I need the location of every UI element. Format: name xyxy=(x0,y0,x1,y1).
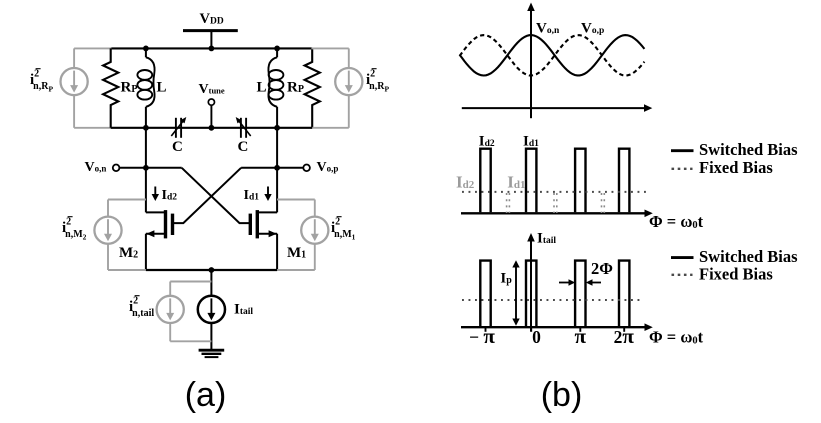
svg-text:− π: − π xyxy=(469,324,495,348)
plot3 x-axis xyxy=(461,326,646,328)
svg-text:Fixed Bias: Fixed Bias xyxy=(699,265,773,284)
wire source rail xyxy=(146,269,277,271)
resistor RP right xyxy=(305,48,320,127)
svg-text:L: L xyxy=(257,80,267,96)
svg-text:(a): (a) xyxy=(185,376,227,414)
resistor RP left xyxy=(103,48,118,127)
node top-left junction xyxy=(143,46,149,52)
legend plot3 xyxy=(671,247,798,284)
plot3 y-axis xyxy=(530,239,532,332)
pulse Id2 plot2 #1 xyxy=(480,149,490,213)
noise source i2n,Rp right (gray) xyxy=(311,48,362,127)
fixed-bias dotted level plot3 xyxy=(462,299,641,301)
arrow 2Phi left xyxy=(559,282,570,284)
capacitor C varactor left xyxy=(175,118,177,138)
pulse Itail plot3 #1 xyxy=(480,261,490,327)
waveform Vo,p dashed sine xyxy=(460,35,645,75)
node Vo,p junction xyxy=(274,165,280,171)
node rail-center junction xyxy=(209,125,215,131)
wire cross-couple gate M2 xyxy=(172,168,241,223)
wire cross-couple gate M1 xyxy=(182,168,251,223)
node rail-left junction xyxy=(143,125,149,131)
ground xyxy=(199,349,225,352)
wire drain M2 vertical xyxy=(145,128,147,213)
node top-center junction xyxy=(209,46,215,52)
pulse Id plot2 #3 xyxy=(575,149,585,213)
node rail-right junction xyxy=(274,125,280,131)
svg-text:(b): (b) xyxy=(541,376,583,414)
plot1 y-axis xyxy=(530,9,532,119)
wire tail to ground xyxy=(210,323,212,350)
noise source i2n,M1 (gray) xyxy=(276,200,328,271)
pulse Id1 plot2 #2 xyxy=(526,149,536,213)
pulse Itail plot3 #4 xyxy=(619,261,629,327)
svg-text:Fixed Bias: Fixed Bias xyxy=(699,158,773,177)
svg-text:2π: 2π xyxy=(614,324,635,348)
noise source i2n,Rp left (gray) xyxy=(61,48,112,127)
fixed-bias pulse gray at x=555.4 xyxy=(553,193,555,213)
pulse Id plot2 #4 xyxy=(619,149,629,213)
noise source i2n,tail (gray) xyxy=(157,282,212,342)
transistor M1 xyxy=(256,210,259,238)
wire tail xyxy=(210,270,212,296)
pulse Itail plot3 #3 xyxy=(575,261,585,327)
svg-text:π: π xyxy=(575,324,587,348)
fixed-bias dotted level plot2 xyxy=(462,191,649,193)
inductor L right xyxy=(276,48,278,57)
pulse Itail plot3 #2 xyxy=(526,261,536,327)
transistor M2 xyxy=(164,210,167,238)
node tail junction xyxy=(209,267,215,273)
plot2 x-axis xyxy=(461,212,646,214)
fixed-bias pulse gray at x=602.9 xyxy=(601,193,603,213)
fixed-bias pulse gray at x=508 xyxy=(506,193,508,213)
axis ticks plot3 xyxy=(485,327,487,332)
svg-text:Switched Bias: Switched Bias xyxy=(699,140,798,159)
waveform Vo,n solid sine xyxy=(460,35,645,75)
wire source M1 vertical xyxy=(276,234,278,270)
current Id1 arrow xyxy=(267,187,269,196)
plot1 x-axis xyxy=(462,107,645,109)
noise source i2n,M2 (gray) xyxy=(94,200,146,271)
svg-text:0: 0 xyxy=(532,327,541,347)
wire source M2 vertical xyxy=(145,234,147,270)
node top-right junction xyxy=(274,46,280,52)
current Id2 arrow xyxy=(154,187,156,196)
svg-text:Switched Bias: Switched Bias xyxy=(699,247,798,266)
svg-text:C: C xyxy=(238,139,249,155)
wire Vo,n xyxy=(119,167,181,169)
wire drain M1 vertical xyxy=(276,128,278,213)
wire top rail xyxy=(111,47,313,49)
svg-text:C: C xyxy=(172,139,183,155)
svg-text:2Φ: 2Φ xyxy=(591,259,613,278)
wire LC bottom rail xyxy=(111,127,313,129)
inductor L left xyxy=(145,48,147,57)
svg-text:L: L xyxy=(157,80,167,96)
arrow 2Phi right xyxy=(592,282,602,284)
wire Vo,p xyxy=(241,167,303,169)
Ip double arrow xyxy=(515,266,517,320)
capacitor C varactor right xyxy=(240,118,242,138)
current source Itail xyxy=(198,296,225,323)
node Vo,n junction xyxy=(143,165,149,171)
legend plot2 xyxy=(671,140,798,177)
